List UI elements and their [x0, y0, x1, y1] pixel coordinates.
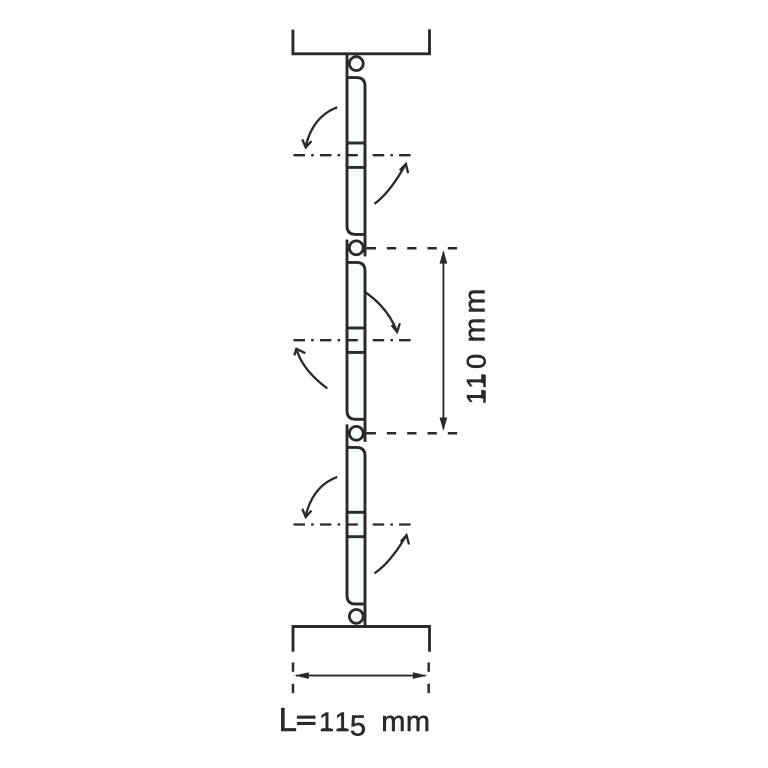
rotation axis 3 (dash-dot centre line) [294, 523, 415, 525]
blade 1 outline [347, 54, 365, 257]
label 110 mm (rotated) [459, 289, 492, 405]
hub rectangle blade 2 [347, 328, 365, 352]
top duct flange (channel) [293, 29, 430, 53]
louvre blade 1 (body fill + outline) [347, 78, 365, 235]
extension dashed line below left leg [292, 663, 295, 696]
extension dashed line below right leg [427, 663, 430, 696]
louvre blade 3 (body fill) [347, 447, 365, 604]
dimension line 110 mm (vertical, double arrow) [442, 252, 444, 429]
hub rectangle blade 3 [347, 512, 365, 536]
pivot circle 2 [349, 241, 363, 255]
extension dashed line at pivot 3 [367, 432, 459, 435]
svg-text:5: 5 [350, 710, 366, 742]
svg-text:110: 110 [462, 354, 492, 405]
svg-text:11: 11 [319, 707, 350, 737]
pivot circle 3 [349, 426, 363, 440]
rotation arrow blade 1 left (curved, points down-left) [306, 107, 338, 147]
pivot circle 1 [349, 57, 363, 71]
rotation arrow blade 2 left (curved, points up-left) [297, 349, 328, 388]
louvre blade 2 (body fill) [347, 262, 365, 419]
blade 2 outline [347, 240, 365, 442]
foot serif of digit 1 (first) [322, 728, 330, 731]
foot serif of rotated digit 1 (lower) [481, 390, 484, 399]
svg-text:mm: mm [381, 706, 430, 738]
svg-text:L: L [279, 701, 297, 738]
dimension line L=115 mm (horizontal, double arrow) [296, 675, 426, 677]
rotation axis 1 (dash-dot centre line) [294, 154, 415, 156]
rotation arrow blade 1 right (curved, points up-right) [375, 164, 406, 204]
rotation arrow blade 3 left (curved, points down-left) [306, 477, 338, 517]
rotation axis 2 (dash-dot centre line) [294, 339, 415, 341]
hub rectangle blade 1 [347, 143, 365, 167]
blade 3 outline [347, 424, 365, 626]
pivot circle 4 [349, 610, 363, 624]
rotation arrow blade 3 right (curved, points up-right) [375, 535, 407, 573]
foot serif of rotated digit 1 (upper) [481, 374, 484, 383]
foot serif of digit 1 (second) [338, 728, 346, 731]
rotation arrow blade 2 right (curved, points down-right) [366, 293, 397, 332]
equals sign (drawn) [297, 716, 316, 719]
extension dashed line at pivot 2 [367, 247, 459, 250]
bottom duct flange (channel) [293, 627, 430, 652]
